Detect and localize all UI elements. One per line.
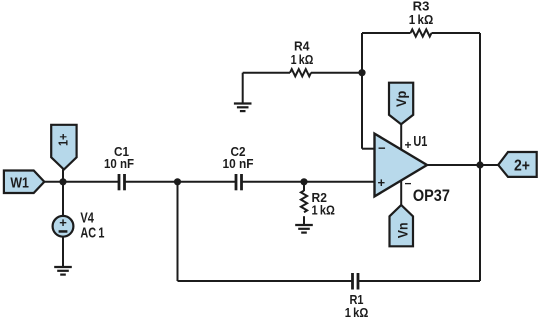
wire V4 bottom to ground <box>62 237 64 267</box>
node N5 output junction dot <box>476 161 483 168</box>
wire N2 down to bottom rail <box>177 182 179 281</box>
svg-text:AC 1: AC 1 <box>80 224 104 241</box>
ground for V4 <box>54 267 72 275</box>
wire R4 right segment to N4 <box>311 72 362 74</box>
ground for R2 <box>295 225 313 233</box>
wire vertical from N4 down to minus input level <box>361 73 363 149</box>
wire C1 right plate to node N2 <box>126 181 178 183</box>
resistor R2 zigzag (vertical) <box>301 191 307 213</box>
wire R4 left segment <box>243 72 290 74</box>
node N4 junction dot <box>358 69 365 76</box>
node N3 junction dot <box>300 178 307 185</box>
node N1 junction dot <box>59 178 66 185</box>
flag 1+ <box>51 125 76 170</box>
svg-text:Vn: Vn <box>396 223 411 239</box>
wire N5 to 2+ flag tip <box>480 164 499 166</box>
svg-text:+: + <box>405 138 412 152</box>
wire R3 top horizontal right segment <box>432 32 481 34</box>
resistor R4 zigzag <box>290 69 311 76</box>
svg-text:+: + <box>59 215 67 230</box>
wire right vertical from N5 up to R3 right end <box>479 33 481 165</box>
wire bottom rail right of R1 <box>359 280 481 282</box>
svg-text:R4: R4 <box>294 40 309 54</box>
svg-text:1 kΩ: 1 kΩ <box>291 53 314 67</box>
wire N1 to C1 left plate <box>63 181 118 183</box>
wire R2 bottom to ground <box>303 216 305 224</box>
svg-text:OP37: OP37 <box>413 186 450 205</box>
source V4 circle <box>53 216 74 237</box>
svg-text:+: + <box>378 175 386 190</box>
op-amp U1 triangle <box>375 134 428 197</box>
svg-text:1+: 1+ <box>56 133 71 146</box>
wire N2 to C2 left plate <box>178 181 236 183</box>
node N2 junction dot <box>174 178 181 185</box>
svg-text:R1: R1 <box>350 293 364 307</box>
wire bottom rail left of R1 <box>178 280 352 282</box>
wire right vertical from bottom rail up to output node N5 <box>479 165 481 281</box>
svg-text:1 kΩ: 1 kΩ <box>312 203 336 218</box>
wire Vp flag tip down to op-amp top edge <box>400 124 402 151</box>
svg-text:Vp: Vp <box>394 91 409 107</box>
wire R3 top horizontal left segment <box>362 32 411 34</box>
flag 2+ <box>498 152 537 177</box>
wire vertical x=362 from R3 down to node N4 <box>361 33 363 73</box>
capacitor C1 plates <box>119 174 125 190</box>
wire 1+ flag tip down to node N1 <box>62 170 64 182</box>
svg-text:R3: R3 <box>413 0 430 13</box>
resistor R3 zigzag <box>411 29 432 36</box>
flag Vn <box>390 205 414 246</box>
svg-text:10 nF: 10 nF <box>104 157 134 171</box>
svg-text:−: − <box>378 141 386 156</box>
wire node N3 down to R2 <box>303 182 305 191</box>
flag W1 <box>4 171 44 194</box>
flag Vp <box>389 83 413 125</box>
wire N3 to op-amp plus input <box>304 181 375 183</box>
wire op-amp bottom edge down to Vn flag tip <box>400 179 402 206</box>
svg-text:1 kΩ: 1 kΩ <box>409 13 434 27</box>
source V4 minus mark <box>59 230 68 233</box>
svg-text:10 nF: 10 nF <box>223 157 254 171</box>
wire W1 tip to node N1 <box>44 181 63 183</box>
wire C2 right plate to node N3 <box>243 181 305 183</box>
svg-text:U1: U1 <box>413 133 427 150</box>
wire to op-amp minus input <box>362 148 375 150</box>
wire R4 left end down to ground <box>242 73 244 103</box>
component R1 plates (capacitor-style symbol labelled R1) <box>353 273 359 290</box>
svg-text:2+: 2+ <box>514 158 530 175</box>
svg-text:1 kΩ: 1 kΩ <box>345 306 369 320</box>
ground for R4 <box>234 104 252 112</box>
wire op-amp output to node N5 <box>427 164 480 166</box>
capacitor C2 plates <box>236 174 242 190</box>
svg-text:W1: W1 <box>10 175 29 191</box>
wire N1 down to V4 top <box>62 182 64 216</box>
svg-text:−: − <box>405 177 412 191</box>
